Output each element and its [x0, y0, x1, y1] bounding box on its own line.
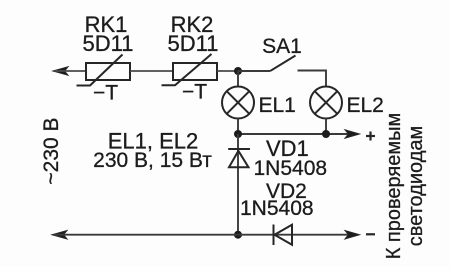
arrow to mains (top left)	[53, 67, 68, 75]
node (junction EL2 bottom)	[322, 130, 330, 138]
arrow to -	[345, 231, 360, 239]
svg-text:EL1: EL1	[259, 94, 296, 117]
wire (- rail left)	[54, 234, 352, 236]
node (junction bottom rail)	[234, 231, 242, 239]
lamp EL2	[310, 87, 342, 135]
thermistor RK2	[162, 54, 218, 85]
svg-text:−T: −T	[93, 82, 118, 105]
svg-text:~230 В: ~230 В	[40, 117, 63, 184]
svg-text:1N5408: 1N5408	[254, 157, 328, 180]
lamp EL1	[222, 71, 254, 134]
switch SA1	[238, 56, 326, 88]
arrow to mains (bottom left)	[52, 231, 67, 239]
svg-text:EL2: EL2	[347, 94, 384, 117]
svg-text:5D11: 5D11	[83, 31, 134, 56]
minus sign	[366, 233, 375, 235]
svg-text:SA1: SA1	[262, 35, 302, 58]
wire (+ rail)	[238, 133, 352, 135]
wire	[130, 70, 173, 72]
plus sign	[366, 132, 375, 141]
diode VD1	[228, 134, 250, 235]
thermistor RK1	[77, 55, 131, 86]
arrow to +	[345, 130, 360, 138]
svg-text:5D11: 5D11	[168, 31, 219, 56]
wire	[217, 70, 238, 72]
svg-text:230 В, 15 Вт: 230 В, 15 Вт	[93, 149, 212, 172]
diode VD2	[274, 225, 293, 246]
node A (junction top)	[234, 67, 242, 75]
svg-text:светодиодам: светодиодам	[405, 126, 427, 247]
node (junction EL1 bottom)	[234, 130, 242, 138]
wire	[55, 70, 86, 72]
svg-text:1N5408: 1N5408	[240, 197, 314, 220]
svg-text:К проверяемым: К проверяемым	[383, 113, 405, 260]
svg-text:−T: −T	[182, 81, 207, 104]
